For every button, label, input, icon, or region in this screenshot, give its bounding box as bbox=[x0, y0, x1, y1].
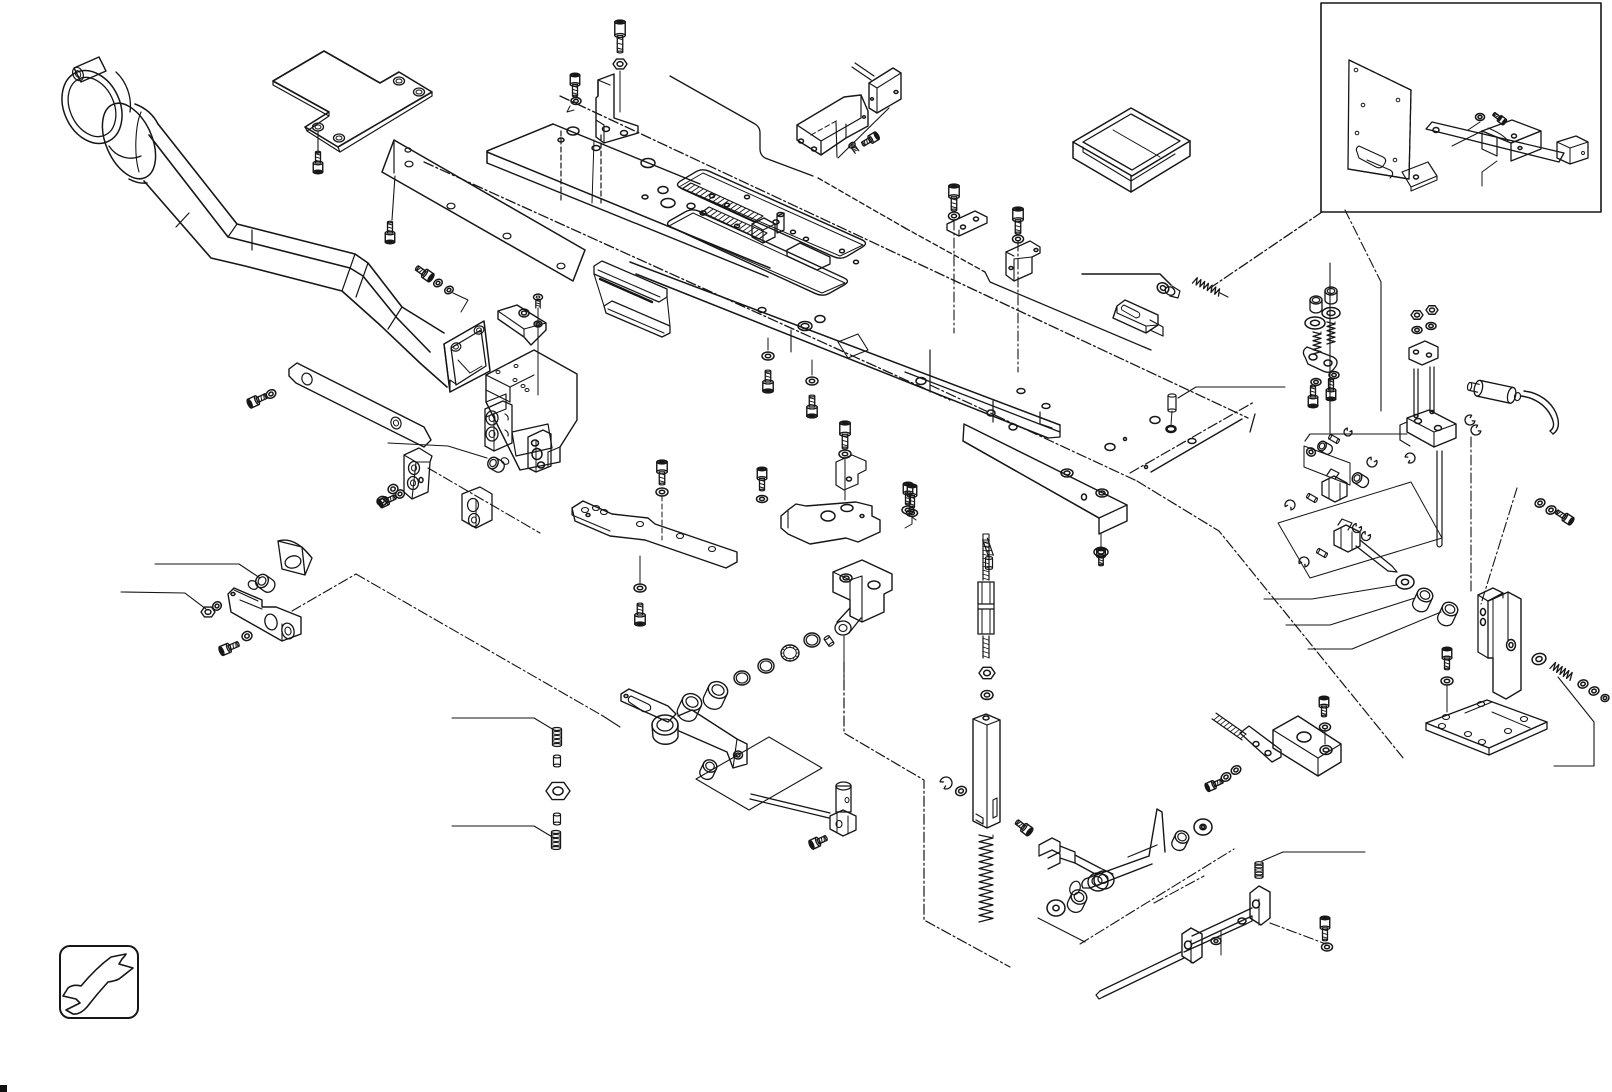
base rail bbox=[630, 262, 1060, 425]
inset lower tab bbox=[1402, 162, 1437, 187]
shoulder stud bbox=[1155, 281, 1170, 296]
bed plate bbox=[487, 124, 553, 163]
base rail holes bbox=[798, 322, 812, 331]
flanged nut bbox=[613, 59, 627, 69]
e-ring and washer bbox=[939, 775, 954, 791]
screw right of bracket bbox=[1320, 916, 1330, 941]
clamp bar bbox=[228, 588, 301, 641]
washer under clamp bar bbox=[241, 630, 253, 642]
lower left dashdot bbox=[428, 468, 540, 533]
latch bracket bbox=[1113, 300, 1158, 333]
pivot e-rings bbox=[1463, 414, 1476, 427]
lead screw bbox=[982, 540, 984, 580]
clamp block bbox=[485, 401, 512, 451]
sensor leader bbox=[670, 76, 813, 176]
long shaft bbox=[1360, 540, 1392, 566]
striker bracket bbox=[498, 305, 546, 345]
leader to stud bbox=[1082, 274, 1171, 285]
upper clevis bbox=[1322, 476, 1347, 502]
bracket right plate bbox=[1250, 886, 1270, 925]
adjuster pins and nut bbox=[553, 728, 562, 747]
base plate bbox=[1426, 700, 1547, 748]
shoulder screw bbox=[253, 572, 277, 595]
inset screw bbox=[1491, 111, 1507, 125]
pillar screws bbox=[1308, 385, 1318, 408]
inset bar bbox=[1426, 122, 1564, 162]
support rail bbox=[382, 140, 585, 281]
sensor box bbox=[869, 68, 901, 113]
compression spring bbox=[979, 835, 993, 922]
screw and clip A bbox=[949, 184, 959, 211]
clevis kit box leader bbox=[1304, 446, 1350, 485]
flat bar plate bbox=[572, 501, 737, 568]
holes in bed near plate bbox=[1017, 389, 1025, 394]
screw right of post bbox=[1013, 818, 1034, 837]
screw under clamp bar bbox=[218, 639, 241, 656]
plate corner tick bbox=[992, 401, 994, 422]
square post bbox=[973, 714, 1000, 828]
rod bar bbox=[1240, 726, 1281, 762]
bed rear edge bbox=[905, 228, 985, 272]
pivot block bbox=[1407, 410, 1456, 447]
small bent bracket bbox=[836, 455, 866, 490]
long phantom diagonal bbox=[930, 385, 1137, 481]
hex nut small bbox=[201, 607, 215, 617]
base rail step bbox=[1040, 412, 1052, 428]
duct outlet flange bbox=[444, 321, 490, 392]
machine axis dash-dot lower bbox=[424, 162, 950, 400]
right phantom corner bbox=[1554, 722, 1594, 766]
nut under plate bbox=[1100, 534, 1102, 547]
sensor wires bbox=[852, 63, 874, 80]
slider small holes bbox=[687, 203, 695, 209]
screw left of bracket bbox=[570, 73, 580, 97]
air cylinder bbox=[1466, 378, 1522, 405]
screw left of spindle block bbox=[1204, 777, 1224, 792]
base plate holes bbox=[1443, 715, 1450, 720]
channel cover bbox=[594, 261, 667, 302]
latch spring bbox=[1192, 278, 1219, 296]
inset box part bbox=[1557, 136, 1588, 164]
screw left of strap bbox=[246, 391, 269, 408]
screw near duct outlet bbox=[414, 264, 436, 283]
keps washer bbox=[981, 691, 993, 700]
inset box frame bbox=[1321, 3, 1601, 212]
screw into base plate bbox=[1442, 647, 1452, 670]
phantom quad bbox=[696, 737, 822, 810]
spindle block bbox=[1273, 716, 1341, 776]
washer and bushings bbox=[1396, 575, 1414, 589]
fork bushing bbox=[1065, 887, 1089, 915]
screws under base rail bbox=[762, 352, 774, 360]
left cluster dash-dot bbox=[292, 574, 356, 611]
link arm bushing bbox=[698, 758, 719, 782]
air hose bbox=[1521, 396, 1554, 431]
pivot rods bbox=[1413, 369, 1415, 416]
leader to center screw bbox=[388, 443, 487, 458]
screw above striker bbox=[534, 294, 543, 308]
pillar column right bbox=[1325, 287, 1337, 304]
push rod bbox=[751, 794, 830, 813]
phantom left boundary bbox=[844, 662, 1010, 967]
slide pin bbox=[777, 213, 784, 233]
washer+bushing leaders bbox=[1264, 585, 1397, 599]
small washer bbox=[211, 600, 223, 612]
swivel boss bbox=[837, 608, 861, 633]
stand screw top right bbox=[1534, 498, 1546, 509]
screw under support rail bbox=[392, 176, 395, 220]
bracket channel bbox=[1192, 908, 1252, 936]
stud under plate bbox=[983, 540, 989, 557]
link arm beam bbox=[678, 710, 747, 768]
clevis kit small parts bbox=[1305, 446, 1317, 457]
sensor screws bbox=[860, 131, 880, 148]
flexible duct bbox=[92, 95, 167, 187]
bracket centre line bbox=[1220, 930, 1222, 955]
lower-right block bbox=[528, 430, 551, 472]
screw above flat bar bbox=[657, 460, 667, 485]
threaded rod bbox=[1212, 719, 1242, 740]
lever arm bbox=[1149, 809, 1165, 856]
page corner mark bbox=[0, 1085, 7, 1092]
pillar washers bbox=[1311, 379, 1321, 386]
slide frame A bbox=[678, 170, 866, 258]
stand column bbox=[1488, 592, 1521, 699]
pivot upper block bbox=[1409, 341, 1438, 365]
tray box bbox=[1073, 108, 1190, 176]
wedge piece bbox=[278, 541, 312, 575]
swivel vertical line bbox=[843, 636, 845, 690]
inset bracket bbox=[1482, 120, 1541, 143]
vertical dash line bbox=[1470, 437, 1472, 592]
lever axis dash-dot bbox=[1080, 849, 1234, 944]
sensor plate bbox=[781, 502, 880, 544]
rod cylinder bbox=[836, 785, 851, 787]
slide block bbox=[752, 218, 775, 243]
clevis bolt bbox=[808, 833, 829, 849]
manifold main block bbox=[486, 350, 577, 470]
knurl pin above bracket bbox=[1255, 862, 1263, 879]
nuts above pivot block bbox=[1411, 311, 1423, 320]
rod clevis bbox=[830, 810, 856, 836]
clevis phantom quad bbox=[1278, 482, 1442, 578]
right bed edge bbox=[1151, 419, 1242, 472]
screw below flat bar bbox=[634, 584, 646, 592]
sensor bracket bbox=[797, 95, 868, 155]
wrench icon bbox=[60, 946, 138, 1018]
swivel block bbox=[833, 560, 892, 622]
hex nut below lead screw bbox=[979, 667, 995, 678]
leader lines left bbox=[452, 718, 554, 730]
manifold sub block bbox=[486, 394, 506, 417]
stand bracket bbox=[1478, 588, 1503, 601]
fork rod bbox=[1075, 855, 1100, 868]
fork washer bbox=[1047, 900, 1065, 916]
washer chain bbox=[804, 633, 820, 647]
pivot block leader bbox=[1305, 434, 1407, 441]
standoff pin bbox=[1168, 394, 1176, 412]
inset leader lines bbox=[1452, 122, 1482, 146]
link plate bbox=[1303, 347, 1337, 372]
link arm bar bbox=[621, 689, 676, 722]
stand washer and spring bbox=[1531, 652, 1547, 666]
plate hole left bbox=[661, 199, 675, 208]
leader to inset bbox=[1210, 212, 1322, 288]
inset plate slot bbox=[1356, 146, 1385, 168]
bed plate holes bbox=[567, 127, 579, 135]
lever bushing bbox=[1170, 829, 1191, 853]
leader line 2 bbox=[121, 592, 206, 609]
screw and clip B bbox=[1013, 207, 1023, 234]
dashed lines under bracket bbox=[560, 131, 562, 203]
washers left of clip bbox=[387, 483, 399, 495]
rack hatch slot 1 bbox=[682, 183, 763, 222]
pillar phantom lines bbox=[1329, 263, 1331, 433]
inset mounting plate bbox=[1348, 60, 1411, 179]
screw left of lower clip bbox=[377, 493, 397, 509]
pillar column left bbox=[1310, 296, 1322, 313]
cover plate bbox=[273, 51, 432, 147]
lower clip bbox=[462, 487, 492, 528]
sensor plate screws bbox=[840, 421, 850, 449]
lever washer bbox=[1194, 819, 1212, 835]
pivot rod down bbox=[1436, 451, 1438, 545]
support rail holes bbox=[405, 161, 413, 167]
hose clamp ring bbox=[51, 61, 134, 154]
screw above spindle block bbox=[1319, 696, 1329, 717]
fork leader bbox=[1038, 918, 1085, 942]
lower clevis bbox=[1334, 525, 1360, 552]
bent tab right bbox=[787, 243, 830, 270]
sensor box leader bbox=[838, 108, 889, 158]
screw under cover plate bbox=[317, 131, 319, 154]
bushing chain bbox=[700, 679, 730, 713]
long rod bbox=[1100, 952, 1181, 991]
fork clevis bbox=[1039, 838, 1060, 858]
rack hatch slot 2 bbox=[701, 207, 767, 239]
side strap bar bbox=[289, 363, 431, 447]
leader from standoff bbox=[1178, 387, 1285, 398]
cover plate holes bbox=[394, 77, 405, 85]
rod eye bbox=[1094, 871, 1114, 889]
leader line 1 bbox=[155, 564, 260, 578]
screw right of sensor plate bbox=[907, 484, 917, 508]
bent bracket bbox=[596, 74, 638, 143]
left angle clip bbox=[404, 448, 432, 499]
link arm eye bbox=[652, 715, 678, 735]
center screw bbox=[486, 455, 507, 474]
bolt above bracket bbox=[615, 20, 625, 53]
flat bar holes bbox=[582, 508, 589, 513]
bracket left plate bbox=[1182, 928, 1202, 963]
slide frame B bbox=[668, 210, 848, 295]
flat plate bbox=[963, 424, 1127, 534]
machine axis dash-dot upper bbox=[560, 96, 1248, 418]
flat plate holes bbox=[1009, 424, 1017, 430]
